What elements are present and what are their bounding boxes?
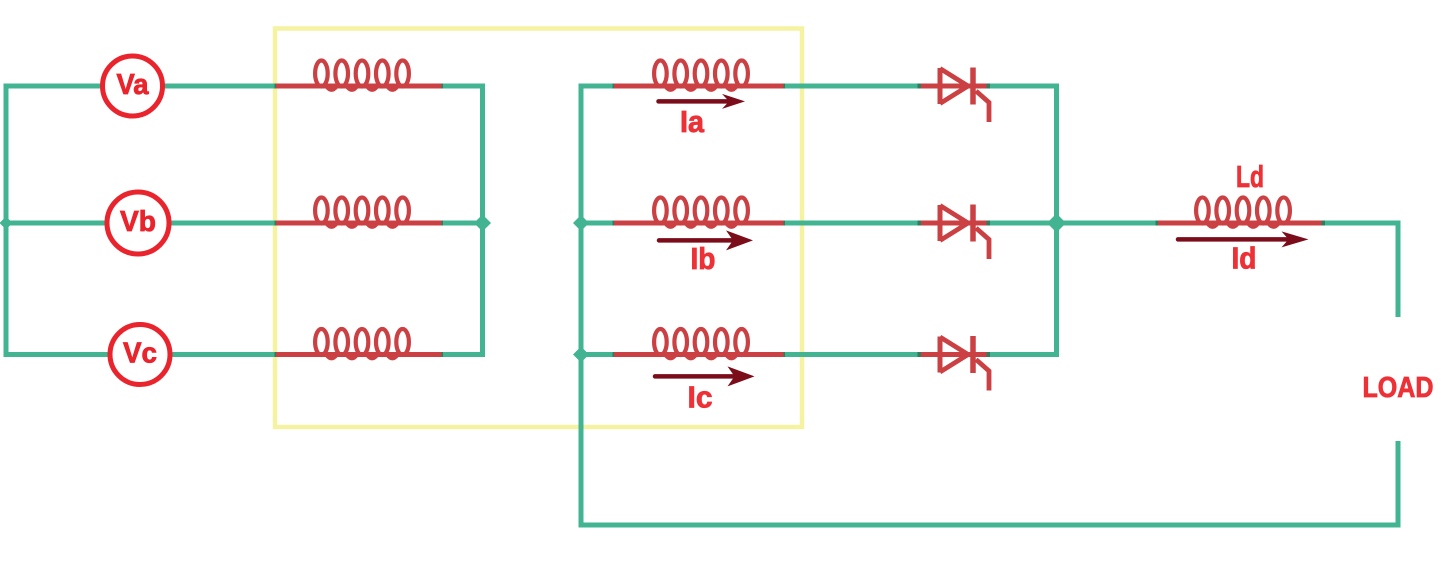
svg-text:Id: Id [1232, 241, 1257, 276]
wire Vb row to transformer [169, 221, 278, 226]
thyristor Tb [921, 205, 991, 260]
thyristor Tc [921, 336, 991, 391]
wire thyristor b to cathode bus [987, 221, 996, 226]
wire Vc row to transformer [170, 352, 278, 357]
inductor secondary winding C [613, 329, 793, 358]
voltage source Va [103, 56, 163, 116]
inductor primary winding B [275, 197, 451, 226]
inductor primary winding C [275, 329, 451, 358]
voltage source Vc [110, 325, 170, 385]
wire Vc row left segment [6, 352, 110, 357]
svg-text:Vc: Vc [123, 338, 157, 370]
current arrow Id [1178, 231, 1309, 247]
wire secondary bus vertical [579, 84, 584, 526]
node primary bus center [474, 215, 491, 232]
wire secondary bus stub phase b [581, 221, 616, 226]
wire primary winding C to primary bus [443, 352, 485, 357]
wire Ld to load corner [1325, 221, 1401, 226]
node secondary bus row c [573, 347, 589, 363]
wire thyristor a to cathode bus [987, 84, 996, 89]
voltage source Vb [107, 192, 169, 254]
wire Vb row left segment [6, 221, 107, 226]
svg-text:Ic: Ic [688, 380, 713, 415]
node cathode bus output junction [1047, 214, 1066, 233]
inductor Ld [1156, 197, 1331, 226]
wire load bottom vertical [1396, 441, 1401, 528]
inductor primary winding A [275, 60, 451, 89]
wire primary winding A to primary bus [443, 84, 485, 89]
wire primary winding B to primary bus [443, 221, 485, 226]
current arrow Ib [659, 230, 753, 250]
wire cathode bus vertical [1054, 84, 1059, 358]
wire thyristor c to cathode bus [987, 352, 996, 357]
wire secondary b to thyristor [785, 221, 923, 226]
wire load top vertical [1396, 221, 1401, 318]
svg-text:Ia: Ia [680, 104, 705, 139]
wire secondary bus stub phase a [581, 84, 616, 89]
svg-text:Va: Va [117, 69, 150, 101]
wire output to Ld [1057, 221, 1162, 226]
inductor secondary winding B [613, 197, 793, 226]
node secondary bus row b [573, 215, 589, 231]
wire left vertical rail [4, 84, 9, 358]
wire Va row left segment [6, 84, 103, 89]
wire primary bus vertical [480, 84, 485, 358]
svg-text:Ld: Ld [1236, 159, 1264, 194]
current arrow Ia [659, 94, 746, 109]
wire secondary c to thyristor [785, 352, 923, 357]
thyristor Ta [921, 68, 991, 123]
wire bottom return [579, 523, 1401, 528]
wire secondary a to thyristor [785, 84, 923, 89]
yellow transformer box [275, 29, 802, 428]
svg-text:LOAD: LOAD [1363, 372, 1434, 404]
wire Va row to transformer [163, 84, 279, 89]
svg-text:Vb: Vb [120, 206, 156, 238]
wire secondary bus stub phase c [581, 352, 616, 357]
node left rail / Vb junction [0, 217, 13, 230]
svg-text:Ib: Ib [691, 241, 716, 276]
current arrow Ic [655, 366, 755, 386]
inductor secondary winding A [613, 60, 793, 89]
